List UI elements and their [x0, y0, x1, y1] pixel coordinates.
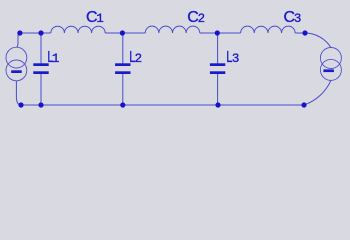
capacitor L3 (shunt)	[210, 33, 225, 105]
inductor C1 (coil symbol)	[51, 26, 105, 33]
node dot L2 top	[120, 30, 125, 35]
node dot top-right source	[302, 30, 307, 35]
svg-text:2: 2	[135, 52, 143, 66]
capacitor L2 (shunt)	[115, 33, 130, 105]
source P1 (left, two overlapping circles)	[6, 47, 27, 81]
wire: right source top hook	[305, 33, 331, 48]
node dot L2 bottom	[120, 102, 125, 107]
wire: top rail between C2 and C3	[200, 32, 241, 34]
svg-text:2: 2	[198, 12, 206, 26]
wire: top rail between C1 and C2	[105, 32, 145, 34]
capacitor L1 (shunt)	[33, 33, 48, 105]
node dot L1 top	[38, 30, 43, 35]
node dot L3 bottom	[215, 102, 220, 107]
wire: top rail left segment	[20, 32, 51, 34]
wire: right source bottom hook	[304, 80, 331, 105]
wire: left source bottom hook	[16, 81, 21, 105]
node dot bottom-right source	[301, 102, 306, 107]
node dot L3 top	[215, 30, 220, 35]
wire: left source top hook	[17, 33, 20, 47]
source P2 bar	[323, 69, 334, 72]
node dot top-left source	[17, 30, 22, 35]
node dot bottom-left source	[18, 102, 23, 107]
node dot L1 bottom	[38, 102, 43, 107]
inductor C2 (coil symbol)	[145, 26, 200, 33]
wire: bottom rail	[21, 104, 304, 106]
source P1 bar	[11, 70, 22, 73]
svg-text:3: 3	[294, 12, 302, 26]
source P2 (right, two overlapping circles)	[320, 48, 341, 81]
wire: top rail right segment	[295, 32, 305, 34]
svg-text:1: 1	[96, 12, 104, 26]
svg-text:3: 3	[232, 52, 240, 66]
inductor C3 (coil symbol)	[241, 26, 296, 33]
svg-text:1: 1	[52, 52, 60, 66]
